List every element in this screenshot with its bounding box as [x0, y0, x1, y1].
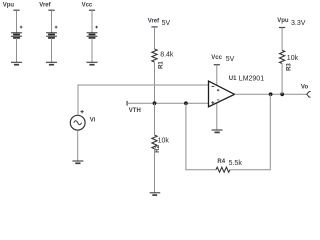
terminal tick Vcc: [214, 64, 220, 66]
node junction output/R3: [280, 92, 284, 96]
terminal tick Vref: [151, 26, 157, 28]
ground (battery V1): [11, 62, 22, 64]
op-amp V- pin mark: [217, 99, 219, 101]
wire feedback right: [230, 94, 270, 169]
voltage source Vi plus mark: [80, 110, 83, 113]
battery V2 plates: [46, 33, 57, 38]
ground (R2): [150, 193, 161, 195]
battery V2 plus mark: [55, 26, 58, 29]
battery V2 terminal tick: [48, 9, 54, 11]
wire: [281, 64, 283, 95]
wire: [51, 10, 53, 33]
terminal tick Vpu: [279, 27, 285, 29]
svg-text:R1: R1: [158, 61, 164, 69]
wire: [216, 103, 218, 130]
node junction output/feedback: [269, 92, 273, 96]
wire: [78, 85, 209, 115]
resistor R3: [280, 50, 285, 63]
svg-text:R3: R3: [287, 63, 293, 71]
battery V1 plus mark: [20, 26, 23, 29]
wire: [77, 130, 79, 161]
svg-text:VTH: VTH: [129, 108, 141, 114]
svg-text:3.3V: 3.3V: [291, 20, 306, 27]
wire: [16, 10, 18, 33]
svg-text:Vref: Vref: [148, 19, 160, 25]
resistor R4: [216, 167, 230, 172]
svg-text:8.4k: 8.4k: [160, 52, 174, 59]
terminal Vo arrow: [307, 92, 311, 98]
terminal tick VTH: [126, 101, 128, 106]
svg-text:Vo: Vo: [301, 85, 309, 91]
wire: [16, 38, 18, 62]
wire: [51, 38, 53, 62]
svg-text:Vpu: Vpu: [3, 3, 15, 9]
wire output: [235, 93, 308, 95]
svg-text:5V: 5V: [226, 56, 235, 63]
battery V3 plus mark: [95, 26, 98, 29]
wire: [91, 10, 93, 33]
resistor R1: [152, 49, 157, 62]
ground (Vi): [72, 161, 83, 163]
op-amp inverting input mark: [212, 85, 215, 87]
wire feedback left: [186, 103, 216, 169]
svg-text:10k: 10k: [158, 138, 170, 145]
wire: [91, 38, 93, 62]
svg-text:R4: R4: [217, 159, 225, 165]
op-amp non-inverting input mark: [211, 101, 214, 104]
wire: [154, 149, 156, 193]
ground (op-amp): [212, 130, 223, 132]
wire: [154, 27, 156, 49]
wire VTH net: [127, 102, 208, 104]
resistor R2: [152, 135, 157, 149]
wire: [154, 62, 156, 103]
battery V1 terminal tick: [13, 9, 19, 11]
node junction feedback: [184, 101, 188, 105]
voltage source Vi sine: [74, 121, 82, 125]
svg-text:LM2901: LM2901: [239, 75, 264, 82]
svg-text:U1: U1: [229, 76, 237, 82]
svg-text:10k: 10k: [287, 55, 299, 62]
svg-text:Vcc: Vcc: [82, 3, 93, 9]
ground (battery V2): [46, 62, 57, 64]
wire: [154, 103, 156, 135]
svg-text:Vpu: Vpu: [277, 18, 289, 24]
svg-text:Vref: Vref: [39, 3, 51, 9]
battery V3 terminal tick: [89, 9, 95, 11]
svg-text:R2: R2: [155, 144, 161, 152]
node junction R1/R2: [153, 101, 157, 105]
wire: [216, 65, 218, 85]
svg-text:5V: 5V: [162, 20, 171, 27]
svg-text:Vi: Vi: [90, 117, 96, 123]
svg-text:Vcc: Vcc: [211, 55, 222, 61]
voltage source Vi: [70, 115, 85, 130]
wire: [281, 28, 283, 51]
ground (battery V3): [87, 62, 98, 64]
op-amp U1 triangle: [209, 81, 235, 107]
svg-text:5.5k: 5.5k: [229, 160, 243, 167]
battery V3 plates: [87, 33, 98, 38]
battery V1 plates: [11, 33, 22, 38]
op-amp V+ pin mark: [217, 89, 219, 91]
